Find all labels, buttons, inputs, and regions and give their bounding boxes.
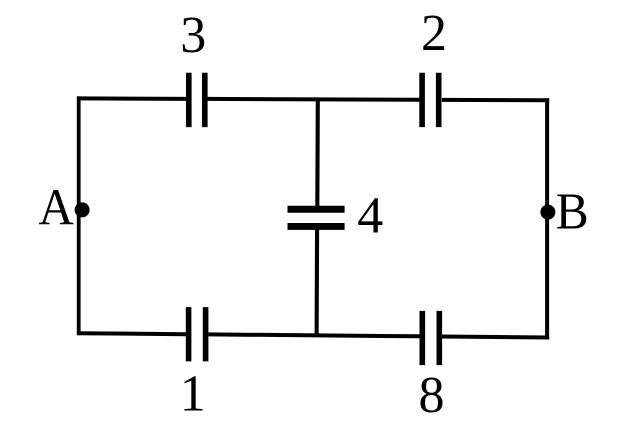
svg-text:A: A	[38, 178, 74, 236]
svg-text:4: 4	[357, 187, 383, 244]
svg-text:B: B	[556, 182, 589, 239]
svg-text:1: 1	[180, 366, 206, 423]
svg-text:2: 2	[421, 5, 447, 62]
svg-text:8: 8	[419, 367, 445, 424]
svg-text:3: 3	[180, 7, 206, 64]
